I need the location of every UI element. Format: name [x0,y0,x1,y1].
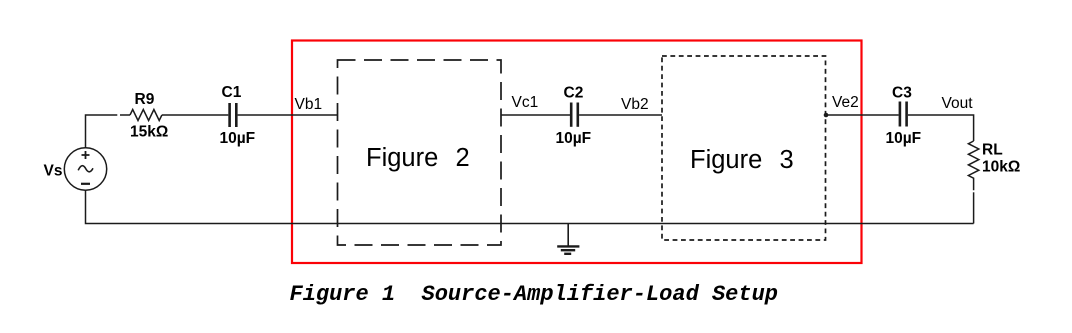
wire C3 to output corner [908,115,974,141]
wire RL bottom lead [973,192,975,223]
red highlight box [292,41,862,264]
wire resistor left lead [120,114,130,116]
svg-text:2: 2 [456,144,470,172]
wire C1 to Figure2 box [238,114,338,116]
dashed box Figure 2 [338,60,502,245]
svg-text:Vs: Vs [44,163,63,180]
capacitor C3 [900,102,907,127]
svg-text:10kΩ: 10kΩ [982,158,1020,175]
svg-text:10µF: 10µF [556,130,592,147]
capacitor C2 [571,103,578,127]
wire C2 to Figure3 box [579,114,662,116]
svg-text:Vb1: Vb1 [295,96,323,113]
resistor RL [968,141,978,190]
wire R9 to C1 [162,114,228,116]
svg-text:C2: C2 [564,85,584,102]
svg-text:RL: RL [982,141,1003,158]
label Figure 3 [690,146,794,174]
svg-text:Ve2: Ve2 [832,94,859,111]
wire Figure2 box to C2 [501,114,570,116]
dotted box Figure 3 [662,56,826,240]
capacitor C1 [230,103,237,127]
node Ve2 junction dot [824,113,829,118]
svg-text:C1: C1 [222,84,242,101]
svg-text:15kΩ: 15kΩ [130,124,168,141]
svg-text:C3: C3 [892,85,912,102]
svg-text:R9: R9 [135,91,155,108]
wire bottom rail [86,190,974,223]
svg-text:10µF: 10µF [886,130,922,147]
wire Figure3 box to C3 [826,114,899,116]
svg-text:Vout: Vout [942,95,974,112]
voltage source Vs [64,148,106,190]
svg-text:Figure: Figure [690,146,762,174]
wire source top lead [86,115,118,148]
svg-text:Vb2: Vb2 [621,96,649,113]
resistor R9 [130,110,162,121]
svg-text:10µF: 10µF [220,130,256,147]
svg-text:Figure 1 Source-Amplifier-Loa: Figure 1 Source-Amplifier-Load Setup [290,282,778,307]
svg-text:3: 3 [780,146,794,174]
svg-text:Vc1: Vc1 [512,94,539,111]
label Figure 2 [366,144,470,172]
svg-text:Figure: Figure [366,144,438,172]
ground [557,224,579,254]
